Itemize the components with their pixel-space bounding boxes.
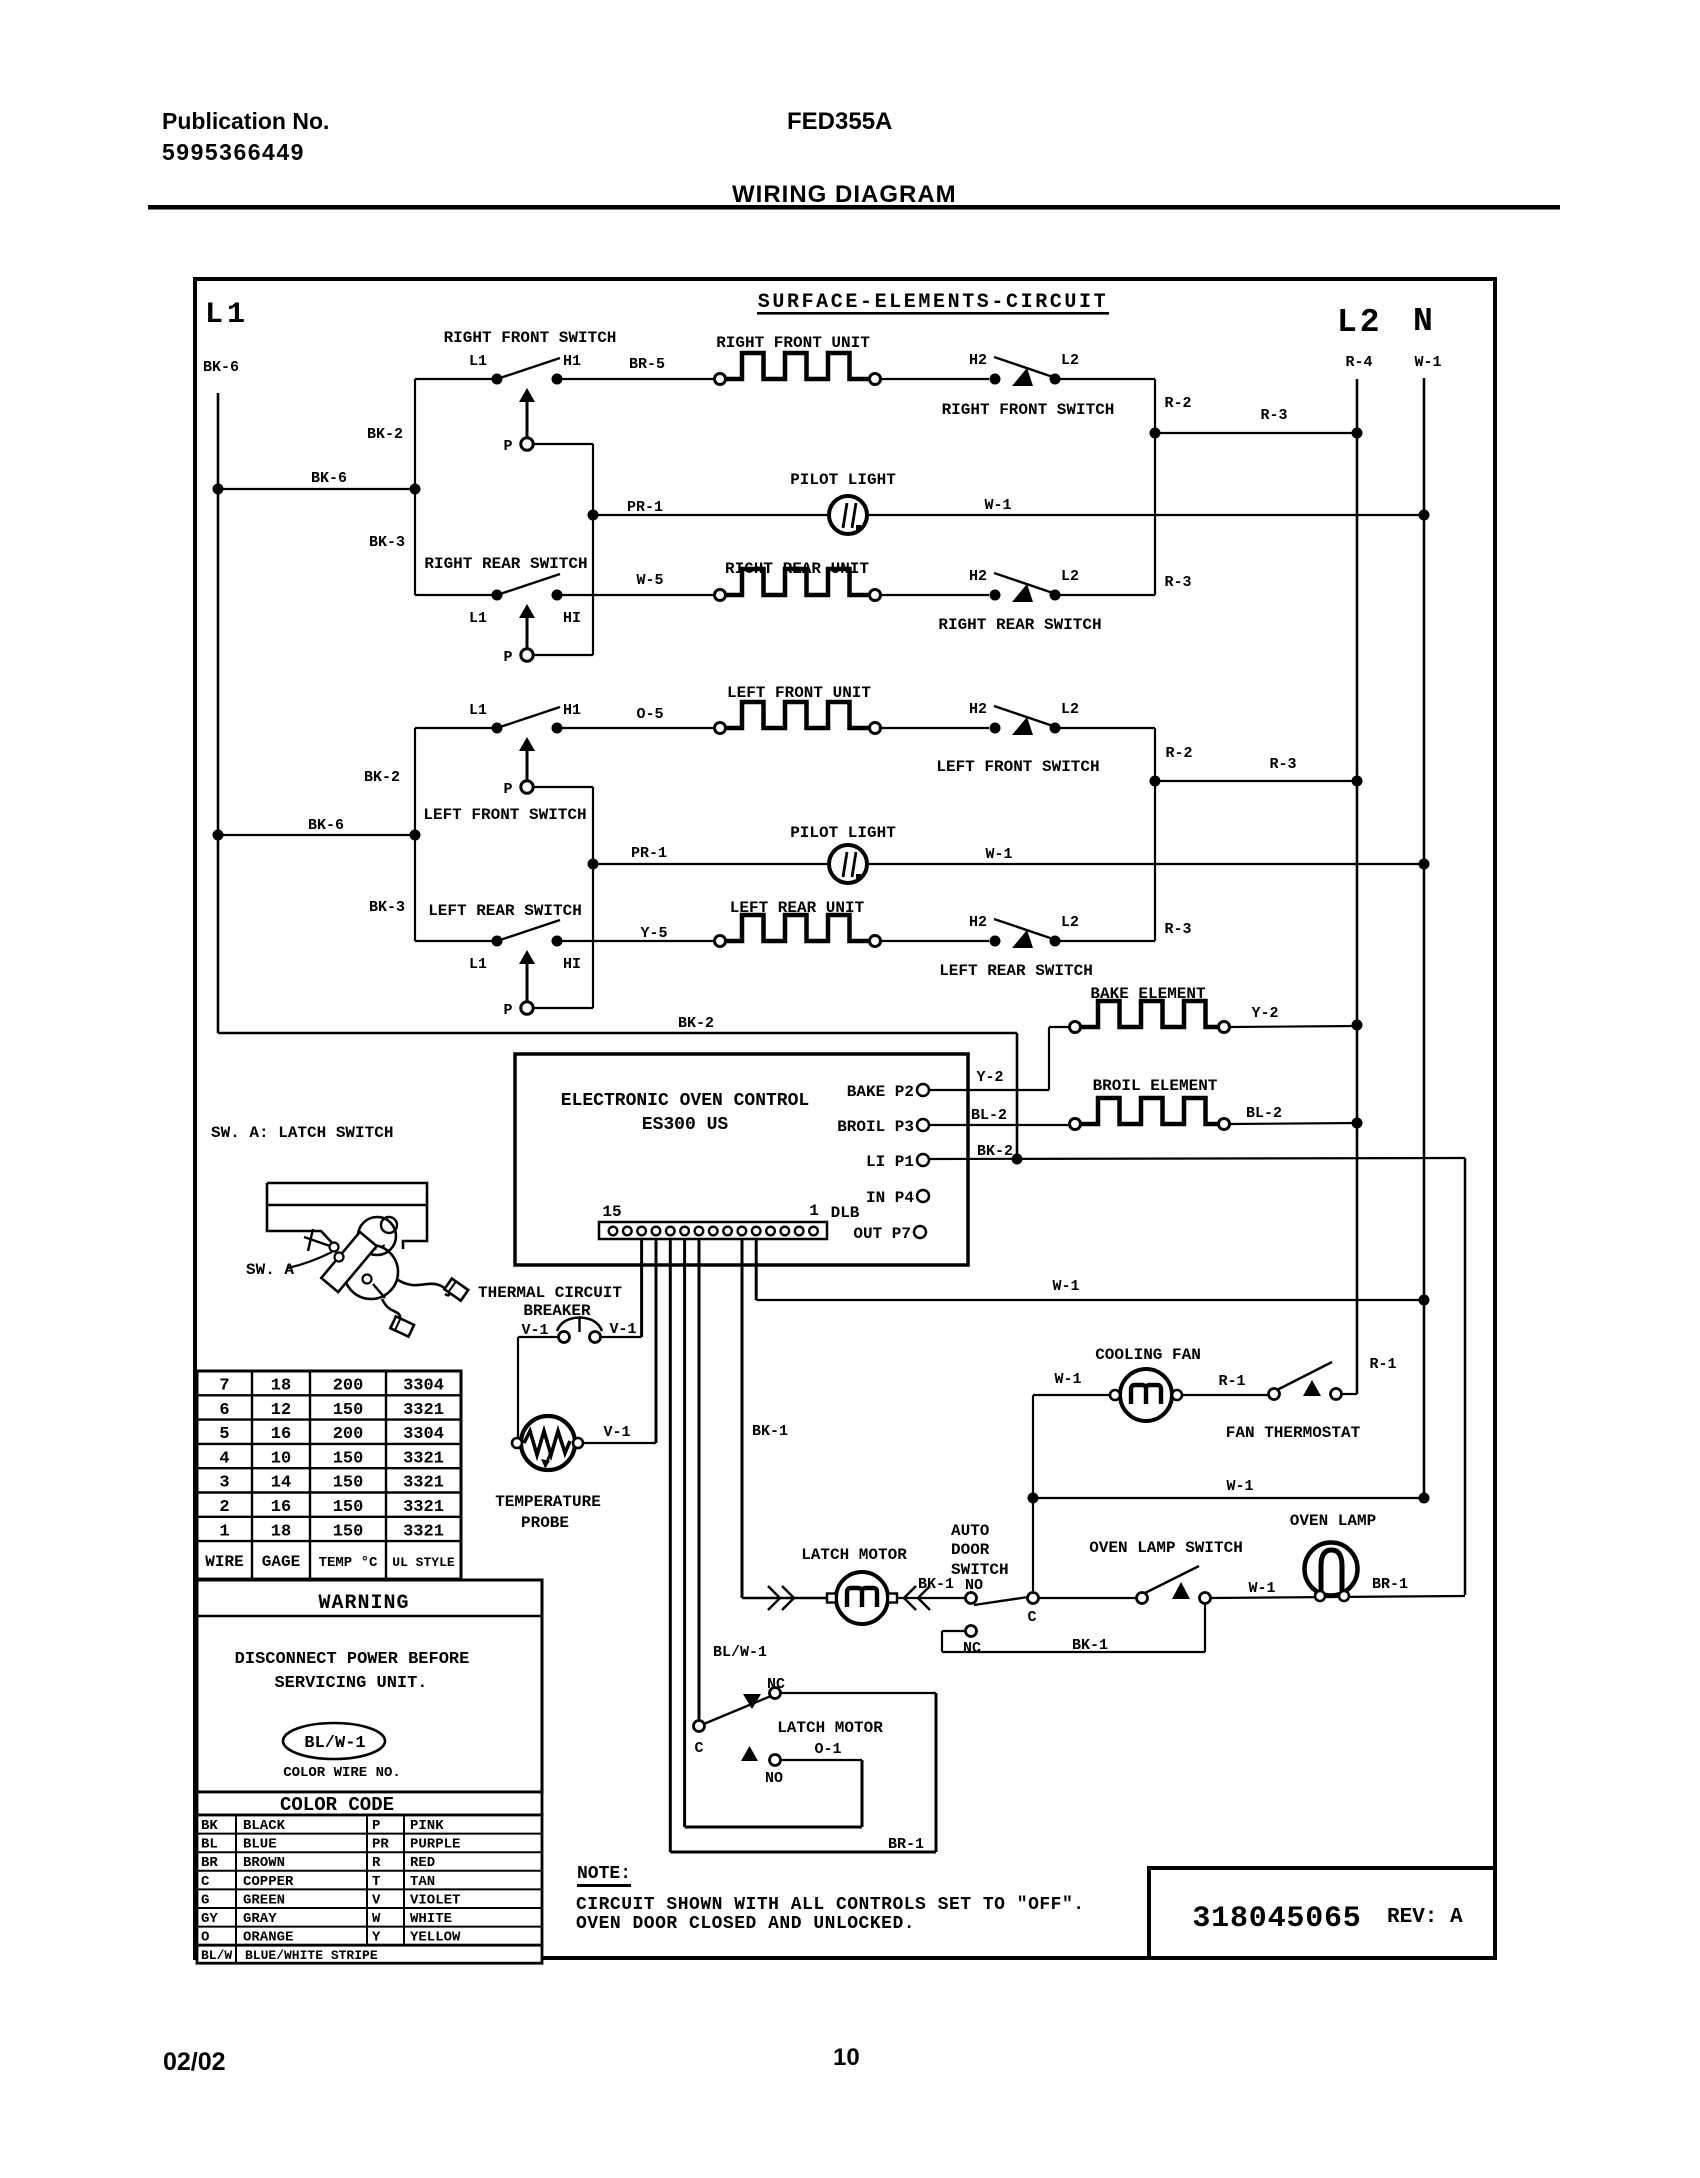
- svg-text:BK-1: BK-1: [752, 1423, 788, 1440]
- svg-text:BK-2: BK-2: [364, 769, 400, 786]
- svg-text:TEMPERATURE: TEMPERATURE: [495, 1493, 601, 1511]
- svg-text:LEFT REAR SWITCH: LEFT REAR SWITCH: [939, 962, 1093, 980]
- svg-text:Publication No.: Publication No.: [162, 108, 329, 134]
- svg-text:CIRCUIT SHOWN WITH ALL CONTROL: CIRCUIT SHOWN WITH ALL CONTROLS SET TO "…: [576, 1895, 1085, 1915]
- svg-text:LATCH MOTOR: LATCH MOTOR: [777, 1719, 883, 1737]
- svg-text:L1: L1: [469, 610, 487, 627]
- svg-text:NO: NO: [965, 1577, 983, 1594]
- svg-text:P: P: [503, 781, 512, 798]
- svg-text:SW. A: SW. A: [246, 1261, 294, 1279]
- svg-text:BROIL P3: BROIL P3: [837, 1118, 914, 1136]
- svg-text:NOTE:: NOTE:: [577, 1864, 631, 1884]
- svg-text:L2: L2: [1061, 352, 1079, 369]
- svg-text:PR-1: PR-1: [631, 845, 667, 862]
- svg-text:150: 150: [333, 1498, 364, 1517]
- svg-text:LI P1: LI P1: [866, 1153, 914, 1171]
- svg-text:L1: L1: [469, 956, 487, 973]
- svg-text:2: 2: [219, 1498, 229, 1517]
- svg-text:BL-2: BL-2: [1246, 1105, 1282, 1122]
- svg-text:ORANGE: ORANGE: [243, 1930, 293, 1946]
- svg-text:RIGHT REAR SWITCH: RIGHT REAR SWITCH: [424, 555, 587, 573]
- svg-text:5: 5: [219, 1425, 229, 1444]
- svg-text:L2: L2: [1061, 701, 1079, 718]
- svg-text:W-5: W-5: [636, 572, 663, 589]
- svg-text:OVEN DOOR CLOSED AND UNLOCKED.: OVEN DOOR CLOSED AND UNLOCKED.: [576, 1914, 915, 1934]
- svg-text:1: 1: [809, 1202, 819, 1220]
- svg-text:BL/W-1: BL/W-1: [713, 1644, 767, 1661]
- svg-text:BROIL ELEMENT: BROIL ELEMENT: [1093, 1077, 1218, 1095]
- svg-text:16: 16: [271, 1425, 291, 1444]
- svg-text:BAKE P2: BAKE P2: [847, 1083, 914, 1101]
- svg-text:C: C: [1027, 1609, 1036, 1626]
- svg-text:TAN: TAN: [410, 1874, 435, 1890]
- svg-text:H2: H2: [969, 914, 987, 931]
- svg-text:W-1: W-1: [1052, 1278, 1079, 1295]
- svg-text:RIGHT REAR SWITCH: RIGHT REAR SWITCH: [938, 616, 1101, 634]
- svg-text:BL/W-1: BL/W-1: [304, 1734, 365, 1753]
- svg-text:R-2: R-2: [1164, 395, 1191, 412]
- svg-text:UL STYLE: UL STYLE: [392, 1555, 455, 1570]
- svg-text:BK-6: BK-6: [308, 817, 344, 834]
- svg-text:WIRE: WIRE: [205, 1553, 243, 1571]
- svg-text:LEFT FRONT SWITCH: LEFT FRONT SWITCH: [936, 758, 1099, 776]
- svg-text:BK-6: BK-6: [203, 359, 239, 376]
- svg-text:LEFT REAR SWITCH: LEFT REAR SWITCH: [428, 902, 582, 920]
- svg-text:GREEN: GREEN: [243, 1892, 285, 1908]
- svg-text:YELLOW: YELLOW: [410, 1930, 461, 1946]
- svg-text:C: C: [201, 1874, 210, 1890]
- svg-text:LATCH MOTOR: LATCH MOTOR: [801, 1546, 907, 1564]
- svg-text:OVEN LAMP: OVEN LAMP: [1290, 1512, 1376, 1530]
- svg-text:W-1: W-1: [1226, 1478, 1253, 1495]
- svg-text:BK-1: BK-1: [1072, 1637, 1108, 1654]
- svg-text:16: 16: [271, 1498, 291, 1517]
- svg-text:BR-1: BR-1: [1372, 1576, 1408, 1593]
- svg-text:3304: 3304: [403, 1377, 444, 1396]
- svg-text:R: R: [372, 1855, 381, 1871]
- svg-text:R-3: R-3: [1269, 756, 1296, 773]
- svg-text:10: 10: [271, 1449, 291, 1468]
- svg-text:3321: 3321: [403, 1474, 444, 1493]
- svg-text:COPPER: COPPER: [243, 1874, 294, 1890]
- svg-text:G: G: [201, 1892, 209, 1908]
- svg-text:O: O: [201, 1930, 209, 1946]
- svg-text:SWITCH: SWITCH: [951, 1561, 1009, 1579]
- svg-text:BK-2: BK-2: [977, 1143, 1013, 1160]
- svg-text:PILOT LIGHT: PILOT LIGHT: [790, 824, 896, 842]
- svg-text:Y: Y: [372, 1930, 381, 1946]
- svg-text:TEMP °C: TEMP °C: [319, 1555, 378, 1571]
- svg-text:GRAY: GRAY: [243, 1911, 277, 1927]
- svg-text:THERMAL CIRCUIT: THERMAL CIRCUIT: [478, 1284, 622, 1302]
- svg-text:N: N: [1413, 303, 1433, 340]
- svg-text:COOLING FAN: COOLING FAN: [1095, 1346, 1201, 1364]
- svg-text:FAN THERMOSTAT: FAN THERMOSTAT: [1226, 1424, 1361, 1442]
- svg-text:R-2: R-2: [1165, 745, 1192, 762]
- svg-text:WIRING DIAGRAM: WIRING DIAGRAM: [732, 181, 957, 208]
- svg-text:DISCONNECT POWER BEFORE: DISCONNECT POWER BEFORE: [235, 1650, 470, 1669]
- svg-text:FED355A: FED355A: [787, 108, 892, 135]
- svg-text:BK-2: BK-2: [678, 1015, 714, 1032]
- svg-text:5995366449: 5995366449: [162, 139, 305, 165]
- svg-text:PR-1: PR-1: [627, 499, 663, 516]
- svg-text:3: 3: [219, 1474, 229, 1493]
- svg-text:P: P: [503, 649, 512, 666]
- svg-text:HI: HI: [563, 956, 581, 973]
- svg-text:R-1: R-1: [1369, 1356, 1396, 1373]
- svg-text:P: P: [503, 438, 512, 455]
- svg-text:150: 150: [333, 1474, 364, 1493]
- svg-text:COLOR WIRE NO.: COLOR WIRE NO.: [283, 1765, 401, 1781]
- svg-text:LEFT FRONT SWITCH: LEFT FRONT SWITCH: [423, 806, 586, 824]
- svg-text:H1: H1: [563, 353, 581, 370]
- svg-text:HI: HI: [563, 610, 581, 627]
- svg-text:L1: L1: [469, 353, 487, 370]
- svg-text:LEFT FRONT UNIT: LEFT FRONT UNIT: [727, 684, 871, 702]
- svg-text:PROBE: PROBE: [521, 1514, 569, 1532]
- svg-text:BK-1: BK-1: [918, 1576, 954, 1593]
- svg-text:3304: 3304: [403, 1425, 444, 1444]
- svg-text:12: 12: [271, 1401, 291, 1420]
- svg-text:18: 18: [271, 1377, 291, 1396]
- svg-text:3321: 3321: [403, 1522, 444, 1541]
- svg-text:V-1: V-1: [603, 1424, 630, 1441]
- svg-text:BK-3: BK-3: [369, 899, 405, 916]
- svg-text:O-5: O-5: [636, 706, 663, 723]
- svg-text:BK-3: BK-3: [369, 534, 405, 551]
- svg-text:L2: L2: [1061, 568, 1079, 585]
- svg-text:Y-2: Y-2: [1251, 1005, 1278, 1022]
- svg-text:4: 4: [219, 1449, 229, 1468]
- svg-text:BK-6: BK-6: [311, 470, 347, 487]
- svg-text:DLB: DLB: [831, 1204, 860, 1222]
- svg-text:T: T: [372, 1874, 380, 1890]
- svg-text:AUTO: AUTO: [951, 1522, 990, 1540]
- svg-text:R-3: R-3: [1260, 407, 1287, 424]
- svg-text:ES300 US: ES300 US: [642, 1115, 729, 1135]
- svg-text:H2: H2: [969, 568, 987, 585]
- svg-text:L2: L2: [1337, 304, 1383, 341]
- svg-text:3321: 3321: [403, 1498, 444, 1517]
- svg-text:V: V: [372, 1892, 381, 1908]
- svg-text:150: 150: [333, 1401, 364, 1420]
- svg-text:W-1: W-1: [1248, 1580, 1275, 1597]
- svg-text:L1: L1: [469, 702, 487, 719]
- svg-text:W-1: W-1: [984, 497, 1011, 514]
- svg-text:7: 7: [219, 1377, 229, 1396]
- svg-text:SURFACE-ELEMENTS-CIRCUIT: SURFACE-ELEMENTS-CIRCUIT: [758, 291, 1108, 314]
- svg-text:BL/W: BL/W: [201, 1948, 232, 1963]
- svg-text:1: 1: [219, 1522, 229, 1541]
- svg-text:DOOR: DOOR: [951, 1541, 990, 1559]
- svg-text:RIGHT FRONT UNIT: RIGHT FRONT UNIT: [716, 334, 870, 352]
- svg-text:O-1: O-1: [814, 1741, 841, 1758]
- svg-text:10: 10: [833, 2044, 860, 2071]
- svg-text:H2: H2: [969, 701, 987, 718]
- svg-text:3321: 3321: [403, 1449, 444, 1468]
- svg-text:200: 200: [333, 1377, 364, 1396]
- svg-text:BK-2: BK-2: [367, 426, 403, 443]
- svg-text:BLUE: BLUE: [243, 1837, 277, 1853]
- svg-text:BLUE/WHITE STRIPE: BLUE/WHITE STRIPE: [245, 1948, 378, 1963]
- svg-text:NO: NO: [765, 1770, 783, 1787]
- svg-text:RIGHT FRONT SWITCH: RIGHT FRONT SWITCH: [942, 401, 1115, 419]
- svg-text:P: P: [503, 1002, 512, 1019]
- svg-text:IN P4: IN P4: [866, 1189, 914, 1207]
- svg-text:COLOR CODE: COLOR CODE: [280, 1794, 394, 1816]
- svg-text:VIOLET: VIOLET: [410, 1892, 460, 1908]
- svg-text:BROWN: BROWN: [243, 1855, 285, 1871]
- svg-text:3321: 3321: [403, 1401, 444, 1420]
- svg-text:WARNING: WARNING: [318, 1592, 409, 1615]
- svg-text:GY: GY: [201, 1911, 218, 1927]
- svg-text:R-3: R-3: [1164, 574, 1191, 591]
- svg-text:150: 150: [333, 1449, 364, 1468]
- svg-text:OVEN LAMP SWITCH: OVEN LAMP SWITCH: [1089, 1539, 1243, 1557]
- svg-text:ELECTRONIC OVEN CONTROL: ELECTRONIC OVEN CONTROL: [561, 1091, 809, 1111]
- svg-text:RED: RED: [410, 1855, 435, 1871]
- svg-text:6: 6: [219, 1401, 229, 1420]
- svg-text:15: 15: [602, 1203, 621, 1221]
- svg-text:W: W: [372, 1911, 381, 1927]
- svg-text:R-1: R-1: [1218, 1373, 1245, 1390]
- svg-text:200: 200: [333, 1425, 364, 1444]
- svg-text:150: 150: [333, 1522, 364, 1541]
- svg-text:14: 14: [271, 1474, 291, 1493]
- svg-text:318045065: 318045065: [1192, 1902, 1361, 1936]
- svg-text:WHITE: WHITE: [410, 1911, 452, 1927]
- svg-text:H1: H1: [563, 702, 581, 719]
- svg-text:GAGE: GAGE: [262, 1553, 300, 1571]
- svg-text:PILOT LIGHT: PILOT LIGHT: [790, 471, 896, 489]
- svg-text:W-1: W-1: [985, 846, 1012, 863]
- svg-text:REV: A: REV: A: [1387, 1906, 1463, 1929]
- svg-text:NC: NC: [963, 1640, 981, 1657]
- svg-text:OUT P7: OUT P7: [853, 1225, 911, 1243]
- svg-text:R-4: R-4: [1345, 354, 1372, 371]
- svg-text:BL: BL: [201, 1837, 218, 1853]
- svg-text:PINK: PINK: [410, 1818, 444, 1834]
- svg-text:V-1: V-1: [609, 1321, 636, 1338]
- svg-text:Y-5: Y-5: [640, 925, 667, 942]
- svg-text:SERVICING UNIT.: SERVICING UNIT.: [274, 1674, 427, 1693]
- svg-text:BK: BK: [201, 1818, 218, 1834]
- svg-text:PR: PR: [372, 1837, 389, 1853]
- svg-text:BR-1: BR-1: [888, 1836, 924, 1853]
- svg-text:BL-2: BL-2: [971, 1107, 1007, 1124]
- svg-text:L1: L1: [205, 298, 249, 332]
- svg-text:LEFT REAR UNIT: LEFT REAR UNIT: [730, 899, 865, 917]
- svg-text:P: P: [372, 1818, 380, 1834]
- svg-text:W-1: W-1: [1054, 1371, 1081, 1388]
- svg-text:R-3: R-3: [1164, 921, 1191, 938]
- svg-text:RIGHT REAR UNIT: RIGHT REAR UNIT: [725, 560, 869, 578]
- svg-text:Y-2: Y-2: [976, 1069, 1003, 1086]
- svg-text:H2: H2: [969, 352, 987, 369]
- svg-text:SW. A: LATCH SWITCH: SW. A: LATCH SWITCH: [211, 1124, 393, 1142]
- svg-text:L2: L2: [1061, 914, 1079, 931]
- svg-text:C: C: [694, 1740, 703, 1757]
- svg-text:02/02: 02/02: [163, 2048, 226, 2076]
- svg-text:BR-5: BR-5: [629, 356, 665, 373]
- svg-text:RIGHT FRONT SWITCH: RIGHT FRONT SWITCH: [444, 329, 617, 347]
- svg-text:PURPLE: PURPLE: [410, 1837, 460, 1853]
- svg-text:BLACK: BLACK: [243, 1818, 286, 1834]
- svg-text:W-1: W-1: [1414, 354, 1441, 371]
- svg-text:BR: BR: [201, 1855, 218, 1871]
- svg-text:18: 18: [271, 1522, 291, 1541]
